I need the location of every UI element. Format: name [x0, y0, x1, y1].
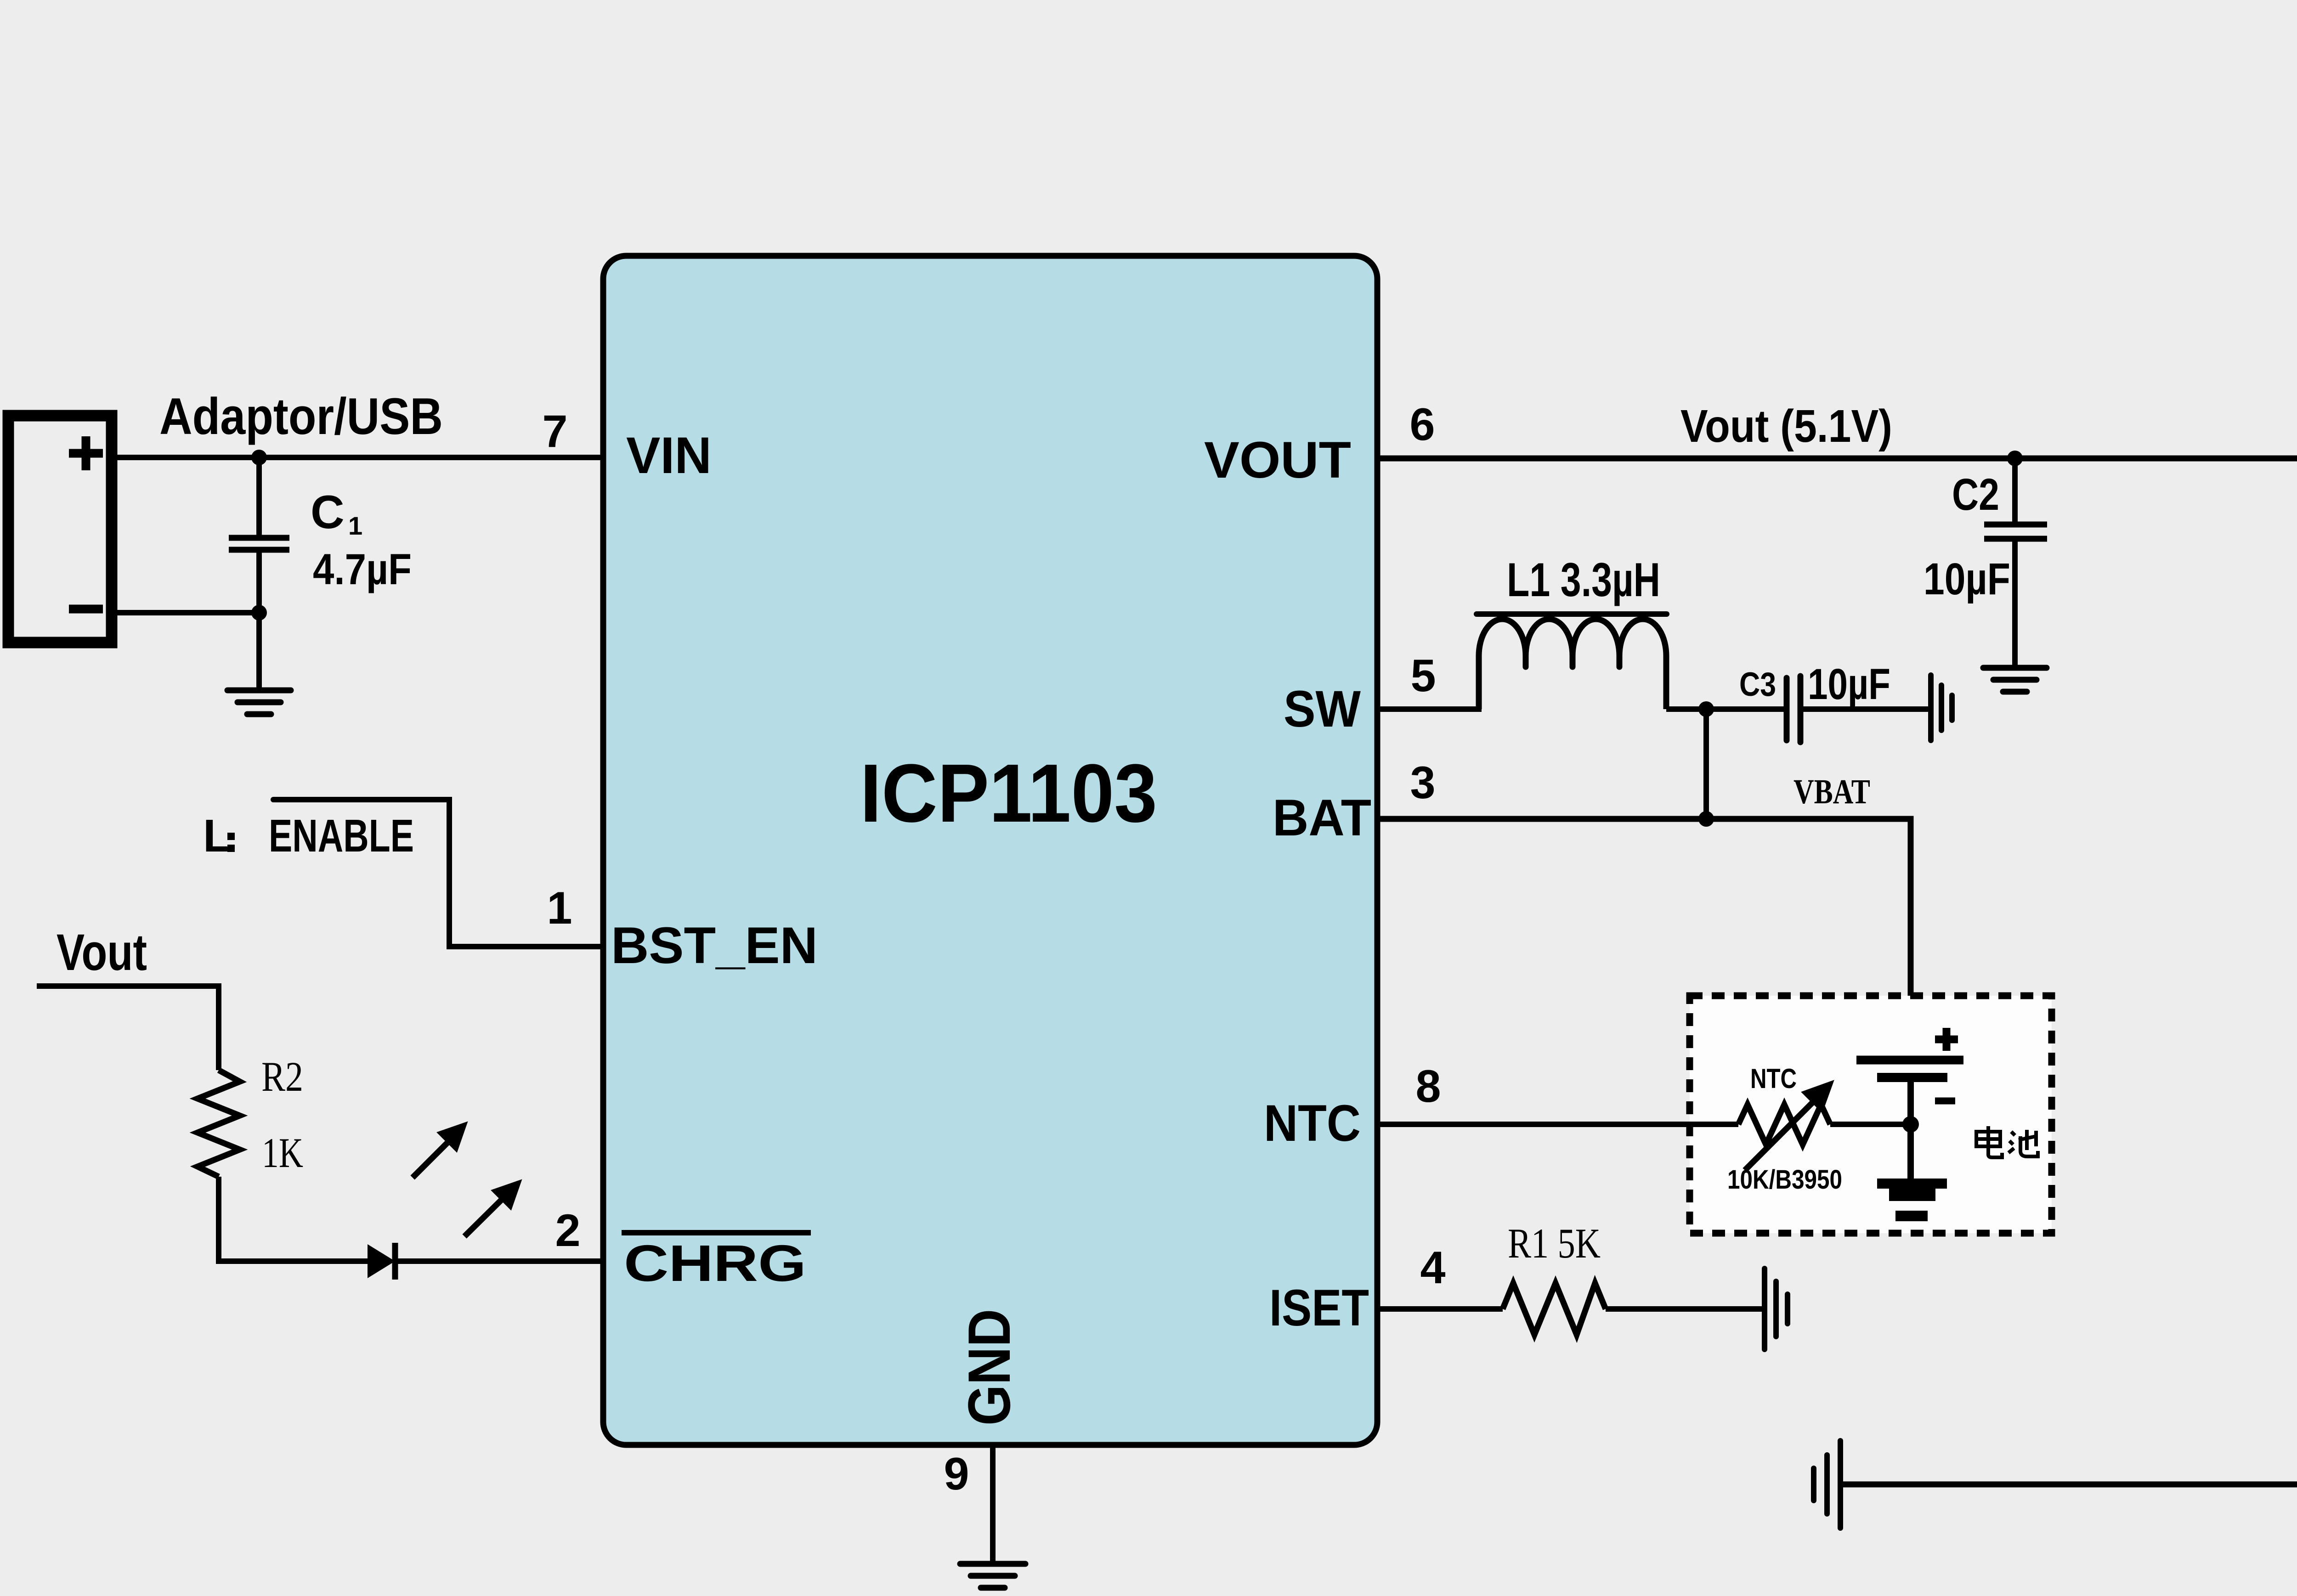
svg-text:BST_EN: BST_EN: [611, 917, 818, 974]
resistor R1: [1503, 1283, 1606, 1335]
wire C3 to ground: [1800, 706, 1931, 712]
wire BAT rail: [1377, 819, 1911, 1060]
battery plus symbol: [1935, 1028, 1958, 1051]
wire SW to inductor: [1377, 706, 1482, 712]
svg-text:9: 9: [944, 1448, 969, 1499]
svg-text:GND: GND: [956, 1309, 1023, 1426]
plus symbol: [69, 436, 103, 470]
svg-text:BAT: BAT: [1273, 789, 1371, 846]
svg-text:1K: 1K: [262, 1129, 303, 1176]
capacitor C1: [229, 457, 289, 690]
node junction BAT: [1698, 811, 1714, 827]
ground for C1: [227, 690, 291, 714]
node junction SW/BAT: [1698, 701, 1714, 717]
svg-text:ENABLE: ENABLE: [269, 810, 414, 862]
capacitor C3: [1787, 676, 1800, 742]
svg-text:SW: SW: [1284, 680, 1361, 738]
wire GND stub: [990, 1445, 996, 1564]
ground for GND pin: [960, 1564, 1025, 1588]
svg-text:7: 7: [542, 406, 567, 457]
inductor L1: [1479, 619, 1666, 709]
wire source minus to C1 bottom: [112, 610, 259, 615]
svg-text:1: 1: [348, 511, 362, 540]
battery minus symbol: [1935, 1098, 1955, 1105]
ground for ISET (rotated style): [1765, 1269, 1788, 1349]
IC U1 ICP1103 body: [603, 256, 1377, 1445]
svg-text:NTC: NTC: [1750, 1063, 1797, 1094]
svg-text:VOUT: VOUT: [1204, 431, 1351, 489]
svg-text:C3: C3: [1739, 666, 1776, 703]
minus symbol: [69, 605, 103, 614]
svg-text:Adaptor/USB: Adaptor/USB: [159, 388, 443, 445]
battery BT1: [1856, 1060, 1963, 1179]
node junction lower: [251, 605, 267, 620]
node junction C2: [2007, 451, 2023, 466]
svg-text:10µF: 10µF: [1808, 660, 1890, 709]
svg-text:10µF: 10µF: [1924, 554, 2010, 604]
ground for C2: [1983, 668, 2047, 692]
ground for C3 (rotated style): [1931, 675, 1952, 740]
svg-text:4: 4: [1420, 1242, 1445, 1293]
wire NTC rail: [1377, 1122, 1738, 1127]
svg-text:4.7µF: 4.7µF: [313, 545, 412, 594]
svg-text:R2: R2: [261, 1053, 303, 1100]
svg-text:Vout (5.1V): Vout (5.1V): [1680, 400, 1892, 452]
thermistor NTC zigzag: [1738, 1105, 1830, 1145]
wire LED to CHRG: [395, 1258, 603, 1264]
wire junction vertical: [1703, 709, 1709, 819]
svg-text:1: 1: [547, 882, 572, 933]
label battery (dianchi) hand glyphs: [1976, 1126, 2038, 1157]
wire VIN rail: [112, 455, 603, 460]
svg-text:10K/B3950: 10K/B3950: [1727, 1165, 1842, 1195]
wire ENABLE to BST_EN: [273, 800, 603, 947]
wire Vout to R2: [37, 986, 219, 1070]
svg-text:VIN: VIN: [626, 427, 712, 484]
capacitor C2: [1984, 458, 2047, 668]
svg-text:C2: C2: [1952, 469, 1999, 519]
wire R1 to ground: [1606, 1306, 1765, 1312]
LED emission arrow 2: [464, 1184, 517, 1236]
wire bottom return rail: [1840, 1192, 2297, 1484]
wire ISET to R1: [1377, 1306, 1503, 1312]
svg-text:8: 8: [1415, 1060, 1441, 1111]
node junction NTC/battery: [1902, 1116, 1919, 1133]
ground bottom (rotated style, facing right): [1814, 1441, 1840, 1528]
svg-text:C: C: [311, 486, 345, 538]
svg-text:CHRG: CHRG: [624, 1235, 806, 1292]
resistor R2 vertical zigzag: [198, 1070, 240, 1177]
svg-text:5: 5: [1410, 650, 1436, 701]
node junction on VIN rail: [251, 450, 267, 465]
svg-text:6: 6: [1409, 399, 1435, 450]
svg-text:R1 5K: R1 5K: [1508, 1220, 1601, 1267]
svg-text:2: 2: [555, 1205, 580, 1256]
battery ground: [1877, 1179, 1947, 1221]
battery dashed box: [1690, 996, 2052, 1233]
svg-text:L1 3.3µH: L1 3.3µH: [1507, 553, 1660, 607]
svg-text:ICP1103: ICP1103: [860, 747, 1157, 840]
svg-text:3: 3: [1410, 757, 1435, 808]
wire VOUT rail: [1377, 458, 2297, 779]
LED D1 diode: [368, 1244, 395, 1278]
svg-text:L: L: [203, 810, 231, 862]
power source box (Adaptor/USB): [8, 416, 112, 643]
svg-text:NTC: NTC: [1264, 1094, 1361, 1152]
svg-text:Vout: Vout: [57, 924, 147, 981]
svg-text:ISET: ISET: [1269, 1279, 1369, 1337]
wire R2 to LED: [219, 1177, 368, 1261]
wire inductor to C3: [1666, 706, 1787, 712]
wire NTC to battery junction: [1830, 1122, 1911, 1127]
svg-text:VBAT: VBAT: [1793, 773, 1870, 811]
LED emission arrow 1: [413, 1126, 463, 1178]
thermistor arrow: [1745, 1085, 1829, 1170]
